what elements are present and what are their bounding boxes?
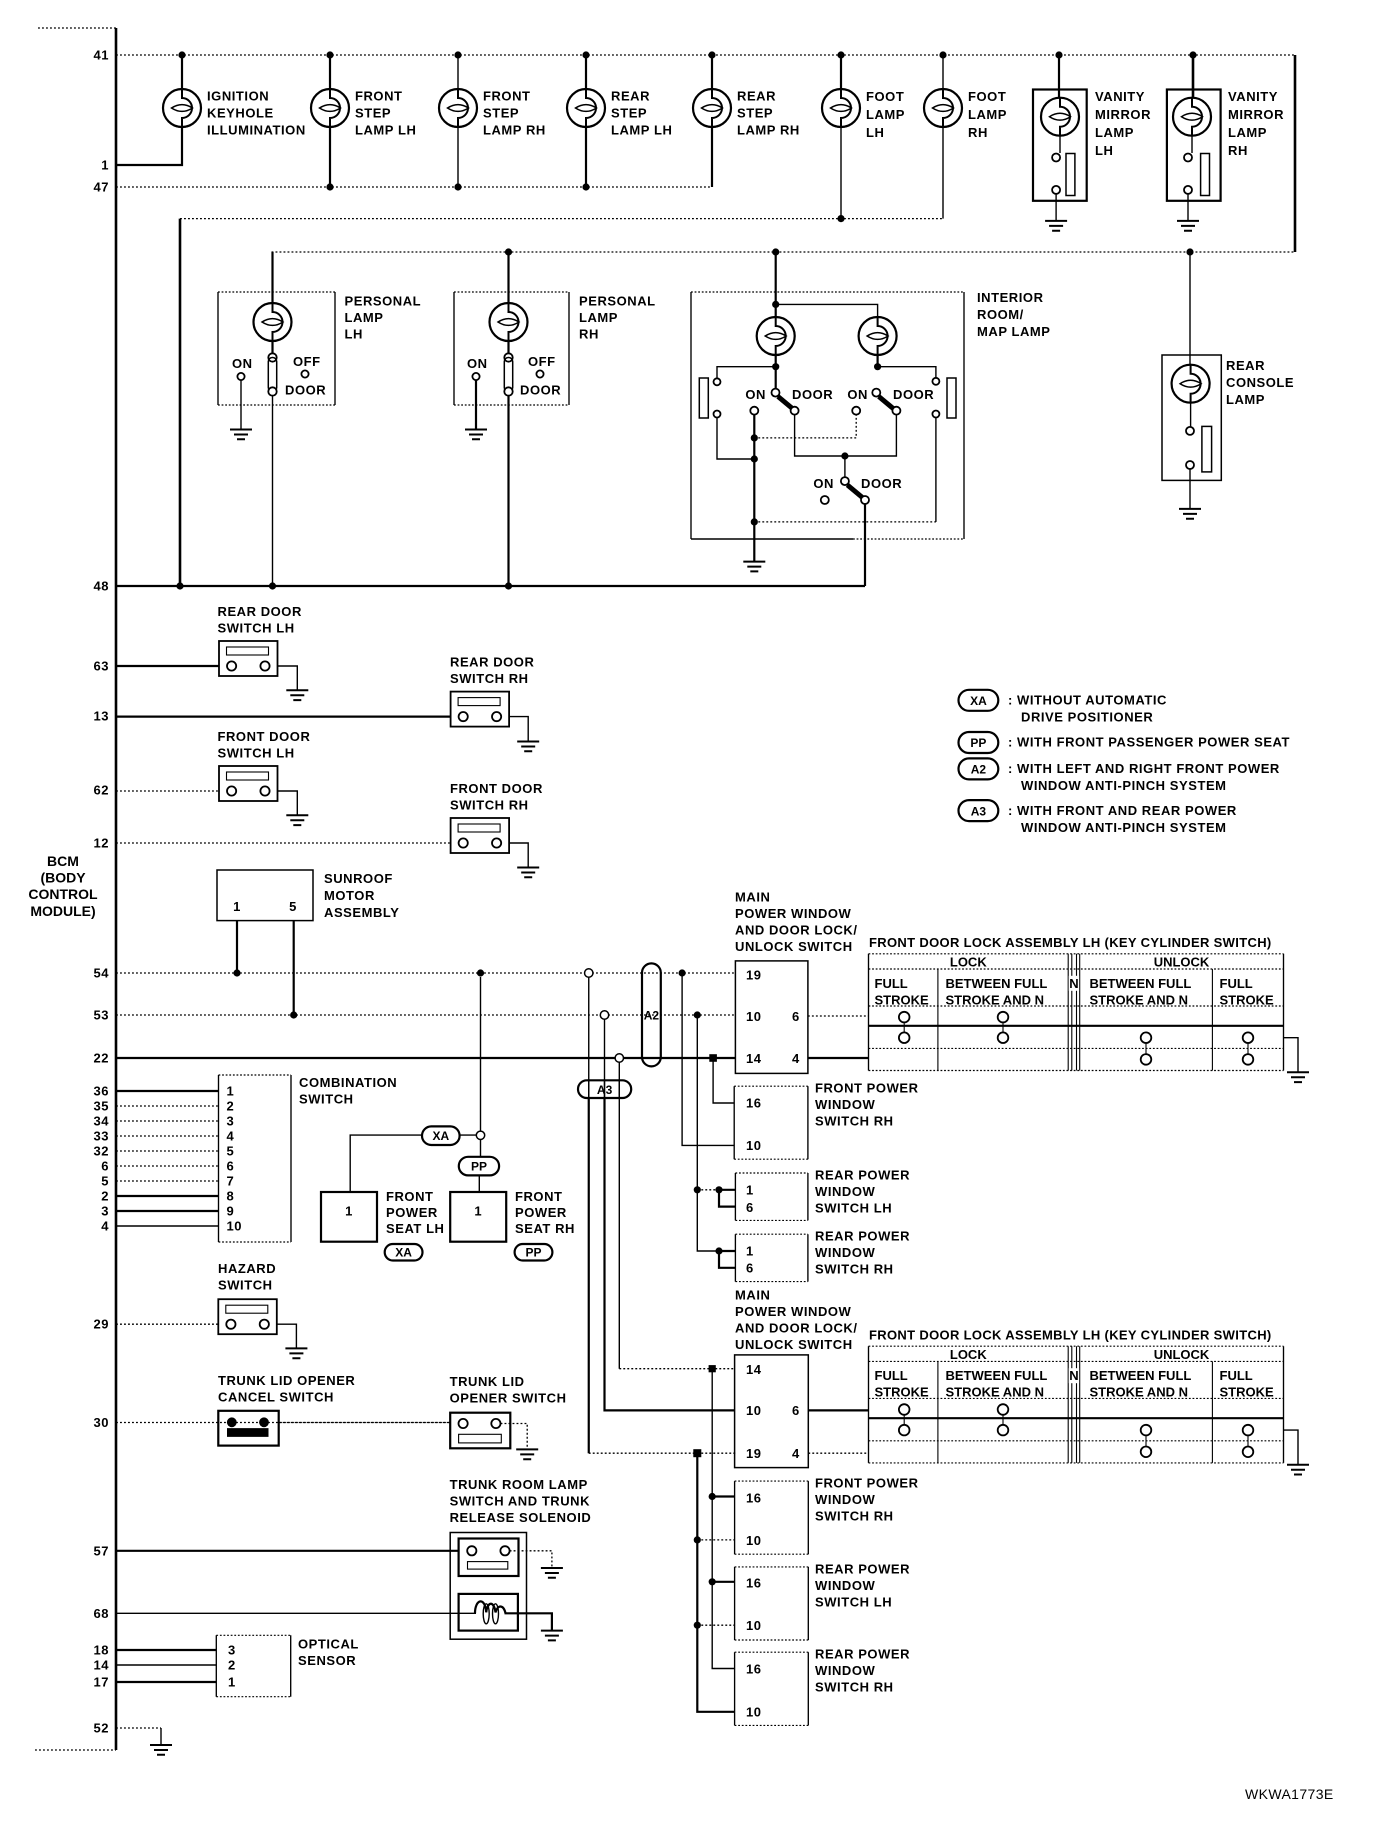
svg-text:MOTOR: MOTOR bbox=[324, 888, 375, 903]
svg-text:10: 10 bbox=[746, 1533, 762, 1548]
svg-text:LAMP: LAMP bbox=[1228, 125, 1267, 140]
svg-text:SWITCH LH: SWITCH LH bbox=[218, 746, 295, 761]
svg-text:A2: A2 bbox=[971, 763, 987, 777]
svg-text:SWITCH RH: SWITCH RH bbox=[815, 1114, 894, 1129]
trunk room lamp switch and trunk release solenoid bbox=[450, 1477, 592, 1639]
svg-text:XA: XA bbox=[970, 694, 987, 708]
svg-text:29: 29 bbox=[93, 1317, 109, 1332]
svg-text:LH: LH bbox=[345, 327, 363, 342]
svg-text:52: 52 bbox=[93, 1721, 109, 1736]
svg-text:1: 1 bbox=[228, 1675, 236, 1690]
svg-text:ASSEMBLY: ASSEMBLY bbox=[324, 905, 399, 920]
svg-text:10: 10 bbox=[227, 1219, 243, 1234]
svg-text:STEP: STEP bbox=[737, 106, 773, 121]
switch: front door switch RH bbox=[116, 781, 543, 877]
svg-text:68: 68 bbox=[93, 1606, 109, 1621]
svg-text:LAMP RH: LAMP RH bbox=[483, 123, 546, 138]
svg-text:7: 7 bbox=[227, 1174, 235, 1189]
svg-text:10: 10 bbox=[746, 1138, 762, 1153]
svg-text:ON: ON bbox=[847, 387, 868, 402]
wire: pin 47 bus bbox=[116, 186, 712, 188]
svg-text:6: 6 bbox=[792, 1403, 800, 1418]
wire: junction on pin 19 feed for lower group bbox=[693, 1449, 701, 1457]
svg-text:RH: RH bbox=[968, 125, 988, 140]
svg-text:IGNITION: IGNITION bbox=[207, 89, 269, 104]
svg-text:4: 4 bbox=[227, 1129, 235, 1144]
svg-text:REAR POWER: REAR POWER bbox=[815, 1229, 910, 1244]
svg-text:CANCEL SWITCH: CANCEL SWITCH bbox=[218, 1390, 334, 1405]
wire: line 54 branch to front power window switch RH pin 10 bbox=[682, 973, 734, 1145]
svg-text:SWITCH RH: SWITCH RH bbox=[450, 798, 529, 813]
svg-text:5: 5 bbox=[289, 899, 297, 914]
svg-text:PERSONAL: PERSONAL bbox=[579, 294, 656, 309]
svg-text:8: 8 bbox=[227, 1189, 235, 1204]
svg-text:WINDOW: WINDOW bbox=[815, 1578, 876, 1593]
svg-text:UNLOCK SWITCH: UNLOCK SWITCH bbox=[735, 1337, 853, 1352]
personal lamp RH bbox=[454, 248, 656, 586]
svg-text:4: 4 bbox=[792, 1446, 800, 1461]
wire: A3 drop from pin 22 bbox=[618, 1062, 620, 1369]
connector option XA capsule (wire) bbox=[422, 1126, 485, 1145]
svg-text:16: 16 bbox=[746, 1491, 762, 1506]
svg-text:SUNROOF: SUNROOF bbox=[324, 871, 393, 886]
svg-text:ON: ON bbox=[745, 387, 766, 402]
legend: A2 option bbox=[959, 758, 1280, 793]
svg-text:35: 35 bbox=[93, 1099, 109, 1114]
svg-text:5: 5 bbox=[101, 1174, 109, 1189]
wire: line 54 drop to front power seat RH bbox=[480, 977, 482, 1131]
svg-text:DOOR: DOOR bbox=[520, 383, 561, 398]
main power window and door lock/unlock switch (lower) bbox=[735, 1288, 858, 1468]
svg-text:10: 10 bbox=[746, 1009, 762, 1024]
svg-text:FRONT: FRONT bbox=[386, 1189, 434, 1204]
svg-text:OPENER SWITCH: OPENER SWITCH bbox=[450, 1391, 567, 1406]
svg-text:9: 9 bbox=[227, 1204, 235, 1219]
svg-text:13: 13 bbox=[93, 709, 109, 724]
svg-text:2: 2 bbox=[227, 1099, 235, 1114]
svg-text:4: 4 bbox=[101, 1219, 109, 1234]
wire: pin 48 bus bbox=[116, 582, 865, 589]
svg-text:MIRROR: MIRROR bbox=[1095, 107, 1151, 122]
svg-text:3: 3 bbox=[228, 1643, 236, 1658]
svg-text:XA: XA bbox=[432, 1129, 449, 1143]
switch: trunk room lamp switch bbox=[116, 1539, 563, 1578]
svg-text:RH: RH bbox=[579, 327, 599, 342]
front power window switch RH (upper) bbox=[734, 1081, 918, 1160]
connector option A3 capsule bbox=[578, 1080, 631, 1098]
wire: pin 52 to ground bbox=[116, 1728, 172, 1755]
svg-text:1: 1 bbox=[233, 899, 241, 914]
svg-text:19: 19 bbox=[746, 968, 762, 983]
svg-text:OFF: OFF bbox=[528, 354, 556, 369]
wire: A3 drop from pin 54 bbox=[588, 977, 590, 1098]
svg-text:1: 1 bbox=[746, 1183, 754, 1198]
svg-text:32: 32 bbox=[93, 1144, 109, 1159]
lamp: front step lamp LH bbox=[311, 55, 416, 191]
svg-text:SWITCH: SWITCH bbox=[299, 1092, 354, 1107]
wire: vertical feed to pin 48 bus bbox=[179, 219, 182, 586]
wire: pin 53 bus bbox=[116, 1011, 735, 1019]
rear power window switch LH (upper) bbox=[735, 1168, 910, 1221]
lamp: rear step lamp RH bbox=[693, 55, 800, 187]
svg-text:1: 1 bbox=[474, 1204, 482, 1219]
svg-text:RELEASE SOLENOID: RELEASE SOLENOID bbox=[450, 1510, 592, 1525]
interior lamp inner contacts right bbox=[878, 367, 956, 522]
svg-text:36: 36 bbox=[93, 1084, 109, 1099]
rear power window switch RH (upper) bbox=[735, 1229, 910, 1282]
svg-text:: WITHOUT AUTOMATIC: : WITHOUT AUTOMATIC bbox=[1008, 693, 1167, 708]
svg-text:ROOM/: ROOM/ bbox=[977, 307, 1024, 322]
svg-text:FRONT DOOR: FRONT DOOR bbox=[218, 729, 311, 744]
lamp: front step lamp RH bbox=[439, 55, 546, 191]
wire: line 53 branch to rear power window switches bbox=[694, 1015, 736, 1268]
svg-text:WKWA1773E: WKWA1773E bbox=[1245, 1786, 1334, 1802]
svg-text:14: 14 bbox=[746, 1362, 762, 1377]
svg-text:1: 1 bbox=[101, 158, 109, 173]
legend: XA option bbox=[959, 690, 1168, 725]
interior switch tie wiring bbox=[751, 415, 936, 526]
svg-text:VANITY: VANITY bbox=[1228, 89, 1278, 104]
svg-text:FOOT: FOOT bbox=[866, 89, 904, 104]
svg-text:57: 57 bbox=[93, 1544, 109, 1559]
svg-text:PP: PP bbox=[471, 1159, 487, 1173]
connector option PP capsule (wire) bbox=[459, 1140, 499, 1193]
svg-text:LH: LH bbox=[866, 125, 884, 140]
wire: foot lamp feed line bbox=[180, 218, 943, 220]
svg-text:CONTROL: CONTROL bbox=[28, 886, 98, 902]
BCM (Body Control Module) left bus line bbox=[35, 28, 116, 1750]
svg-text:OFF: OFF bbox=[293, 354, 321, 369]
interior room / map lamp assembly bbox=[691, 248, 964, 539]
svg-text:MAIN: MAIN bbox=[735, 1288, 770, 1303]
svg-text:FRONT POWER: FRONT POWER bbox=[815, 1081, 919, 1096]
svg-text:REAR: REAR bbox=[737, 89, 776, 104]
svg-text:SWITCH LH: SWITCH LH bbox=[218, 621, 295, 636]
svg-text:LAMP LH: LAMP LH bbox=[611, 123, 672, 138]
svg-text:LAMP: LAMP bbox=[1095, 125, 1134, 140]
svg-text:WINDOW: WINDOW bbox=[815, 1184, 876, 1199]
svg-text:POWER WINDOW: POWER WINDOW bbox=[735, 1304, 852, 1319]
lamp: vanity mirror lamp LH bbox=[1033, 55, 1151, 231]
main power window and door lock/unlock switch (upper) bbox=[735, 890, 858, 1074]
svg-text:SWITCH RH: SWITCH RH bbox=[815, 1262, 894, 1277]
svg-text:DOOR: DOOR bbox=[861, 476, 902, 491]
svg-text:WINDOW: WINDOW bbox=[815, 1492, 876, 1507]
wire: lower group feed to pin-16 rows bbox=[709, 1369, 735, 1669]
svg-text:STEP: STEP bbox=[355, 106, 391, 121]
svg-text:10: 10 bbox=[746, 1618, 762, 1633]
svg-text:: WITH FRONT PASSENGER POWER S: : WITH FRONT PASSENGER POWER SEAT bbox=[1008, 735, 1290, 750]
svg-text:REAR DOOR: REAR DOOR bbox=[218, 604, 302, 619]
interior lamp inner contacts left bbox=[699, 367, 775, 459]
svg-text:4: 4 bbox=[792, 1051, 800, 1066]
svg-text:A2: A2 bbox=[644, 1009, 660, 1023]
svg-text:SWITCH RH: SWITCH RH bbox=[815, 1509, 894, 1524]
switch: rear door switch RH bbox=[116, 655, 539, 752]
wire: A3 drop from pin 53 bbox=[604, 1019, 606, 1098]
svg-text:33: 33 bbox=[93, 1129, 109, 1144]
BCM label bbox=[28, 853, 98, 919]
svg-text:1: 1 bbox=[746, 1244, 754, 1259]
svg-text:INTERIOR: INTERIOR bbox=[977, 290, 1044, 305]
svg-text:POWER: POWER bbox=[515, 1205, 567, 1220]
switch: hazard switch bbox=[116, 1261, 307, 1358]
svg-text:AND DOOR LOCK/: AND DOOR LOCK/ bbox=[735, 1321, 858, 1336]
switch: interior room lamp switch 1 ON/DOOR bbox=[745, 387, 833, 415]
svg-text:LAMP: LAMP bbox=[866, 107, 905, 122]
svg-text:LAMP: LAMP bbox=[968, 107, 1007, 122]
lamp: rear step lamp LH bbox=[567, 55, 672, 191]
svg-text:47: 47 bbox=[93, 180, 109, 195]
wire: pin 30 bus bbox=[116, 1422, 450, 1424]
svg-text:16: 16 bbox=[746, 1096, 762, 1111]
svg-text:PP: PP bbox=[525, 1246, 541, 1260]
svg-text:16: 16 bbox=[746, 1662, 762, 1677]
svg-text:(BODY: (BODY bbox=[40, 870, 86, 886]
BCM pin labels bbox=[93, 48, 109, 1736]
svg-text:SENSOR: SENSOR bbox=[298, 1653, 356, 1668]
svg-text:19: 19 bbox=[746, 1446, 762, 1461]
wire: pin 54 bus bbox=[116, 969, 735, 977]
legend: A3 option bbox=[959, 800, 1237, 835]
sunroof motor assembly bbox=[217, 870, 399, 1015]
wire: upper switch pin 6 to key cylinder table bbox=[808, 1015, 869, 1017]
svg-text:MAP LAMP: MAP LAMP bbox=[977, 324, 1051, 339]
svg-text:LAMP RH: LAMP RH bbox=[737, 123, 800, 138]
lamp: interior room lamp 2 bbox=[859, 317, 897, 370]
svg-text:MAIN: MAIN bbox=[735, 890, 770, 905]
svg-text:ON: ON bbox=[232, 356, 253, 371]
svg-text:SWITCH RH: SWITCH RH bbox=[450, 671, 529, 686]
svg-text:18: 18 bbox=[93, 1643, 109, 1658]
svg-text:PP: PP bbox=[970, 736, 986, 750]
svg-text:WINDOW: WINDOW bbox=[815, 1663, 876, 1678]
svg-text:FRONT: FRONT bbox=[515, 1189, 563, 1204]
svg-text:48: 48 bbox=[93, 579, 109, 594]
lamp: rear console lamp bbox=[1162, 248, 1294, 518]
svg-text:DOOR: DOOR bbox=[285, 383, 326, 398]
svg-text:ON: ON bbox=[467, 356, 488, 371]
svg-text:LAMP: LAMP bbox=[1226, 392, 1265, 407]
wire: lower group feed to pin-10 rows bbox=[694, 1453, 735, 1712]
svg-text:WINDOW: WINDOW bbox=[815, 1097, 876, 1112]
svg-text:REAR DOOR: REAR DOOR bbox=[450, 655, 534, 670]
svg-text:12: 12 bbox=[93, 836, 109, 851]
interior room / map lamp label bbox=[977, 290, 1051, 339]
combination switch bbox=[219, 1075, 398, 1242]
svg-text:53: 53 bbox=[93, 1008, 109, 1023]
svg-text:LAMP LH: LAMP LH bbox=[355, 123, 416, 138]
svg-text:: WITH LEFT AND RIGHT FRONT PO: : WITH LEFT AND RIGHT FRONT POWER bbox=[1008, 761, 1280, 776]
svg-text:3: 3 bbox=[227, 1114, 235, 1129]
svg-text:SWITCH RH: SWITCH RH bbox=[815, 1680, 894, 1695]
svg-text:MODULE): MODULE) bbox=[30, 903, 95, 919]
optical sensor bbox=[116, 1635, 359, 1696]
svg-text:: WITH FRONT AND REAR POWER: : WITH FRONT AND REAR POWER bbox=[1008, 803, 1237, 818]
wire: interior switch 3 DOOR output to pin 48 bus bbox=[864, 504, 866, 586]
lamp: foot lamp LH bbox=[822, 55, 905, 222]
wire: bus line pin 41 bbox=[116, 51, 1295, 58]
svg-text:SWITCH LH: SWITCH LH bbox=[815, 1201, 892, 1216]
connector option A2 capsule bbox=[642, 963, 661, 1066]
front power seat RH bbox=[450, 1189, 575, 1242]
svg-text:KEYHOLE: KEYHOLE bbox=[207, 106, 274, 121]
svg-text:6: 6 bbox=[746, 1200, 754, 1215]
svg-text:HAZARD: HAZARD bbox=[218, 1261, 276, 1276]
svg-text:REAR: REAR bbox=[611, 89, 650, 104]
lamp: interior room lamp 1 bbox=[757, 317, 795, 392]
svg-text:STEP: STEP bbox=[611, 106, 647, 121]
svg-text:FRONT DOOR LOCK ASSEMBLY LH (K: FRONT DOOR LOCK ASSEMBLY LH (KEY CYLINDE… bbox=[869, 1327, 1272, 1342]
svg-text:14: 14 bbox=[746, 1051, 762, 1066]
switch: front door switch LH bbox=[116, 729, 310, 825]
svg-text:16: 16 bbox=[746, 1576, 762, 1591]
svg-text:DOOR: DOOR bbox=[893, 387, 934, 402]
svg-text:STEP: STEP bbox=[483, 106, 519, 121]
svg-text:2: 2 bbox=[228, 1658, 236, 1673]
wire: personal/interior/console lamp feed line bbox=[272, 251, 1296, 253]
svg-text:AND DOOR LOCK/: AND DOOR LOCK/ bbox=[735, 923, 858, 938]
svg-text:6: 6 bbox=[792, 1009, 800, 1024]
svg-text:PERSONAL: PERSONAL bbox=[345, 294, 422, 309]
svg-text:DOOR: DOOR bbox=[792, 387, 833, 402]
lamp: vanity mirror lamp RH bbox=[1167, 55, 1284, 231]
front power window switch RH (lower) bbox=[735, 1476, 919, 1555]
wire: line 22 branch to front power window switch RH pin 16 bbox=[713, 1058, 734, 1103]
svg-text:2: 2 bbox=[101, 1189, 109, 1204]
svg-text:SWITCH LH: SWITCH LH bbox=[815, 1595, 892, 1610]
wires: BCM to combination switch pins bbox=[116, 1091, 219, 1226]
svg-text:3: 3 bbox=[101, 1204, 109, 1219]
wire: pin 22 bus bbox=[116, 1054, 735, 1062]
svg-text:REAR POWER: REAR POWER bbox=[815, 1562, 910, 1577]
svg-text:SEAT RH: SEAT RH bbox=[515, 1221, 575, 1236]
svg-text:OPTICAL: OPTICAL bbox=[298, 1637, 359, 1652]
svg-text:UNLOCK SWITCH: UNLOCK SWITCH bbox=[735, 939, 853, 954]
svg-text:WINDOW: WINDOW bbox=[815, 1245, 876, 1260]
front power seat LH bbox=[321, 1135, 445, 1242]
option tag XA under seat LH bbox=[385, 1244, 423, 1261]
personal lamp LH bbox=[218, 252, 421, 586]
svg-text:LAMP: LAMP bbox=[579, 310, 618, 325]
switch: interior room lamp switch 2 ON/DOOR bbox=[847, 387, 934, 415]
svg-text:REAR POWER: REAR POWER bbox=[815, 1647, 910, 1662]
wire: upper switch pin 4 to key cylinder table bbox=[808, 1057, 869, 1059]
front door lock assembly LH key cylinder switch table (upper) bbox=[869, 935, 1310, 1082]
svg-text:62: 62 bbox=[93, 783, 109, 798]
svg-text:5: 5 bbox=[227, 1144, 235, 1159]
svg-text:22: 22 bbox=[93, 1051, 109, 1066]
ground: interior room lamp bbox=[743, 522, 765, 571]
svg-text:LH: LH bbox=[1095, 143, 1113, 158]
svg-text:54: 54 bbox=[93, 966, 109, 981]
rear power window switch RH (lower) bbox=[735, 1647, 911, 1726]
svg-text:FRONT POWER: FRONT POWER bbox=[815, 1476, 919, 1491]
wire: right feed drop from pin 41 bus bbox=[1294, 55, 1297, 252]
svg-text:REAR POWER: REAR POWER bbox=[815, 1168, 910, 1183]
switch: rear door switch LH bbox=[116, 604, 308, 700]
svg-text:ILLUMINATION: ILLUMINATION bbox=[207, 123, 306, 138]
wire: junction on pin 14 feed for lower group bbox=[709, 1365, 716, 1372]
legend: PP option bbox=[959, 732, 1291, 753]
svg-text:TRUNK LID: TRUNK LID bbox=[450, 1374, 525, 1389]
svg-text:34: 34 bbox=[93, 1114, 109, 1129]
svg-text:REAR: REAR bbox=[1226, 358, 1265, 373]
switch: trunk lid opener cancel switch bbox=[218, 1373, 355, 1446]
svg-text:FRONT DOOR LOCK ASSEMBLY LH (K: FRONT DOOR LOCK ASSEMBLY LH (KEY CYLINDE… bbox=[869, 935, 1272, 950]
svg-text:CONSOLE: CONSOLE bbox=[1226, 375, 1294, 390]
svg-text:FOOT: FOOT bbox=[968, 89, 1006, 104]
svg-text:TRUNK LID OPENER: TRUNK LID OPENER bbox=[218, 1373, 355, 1388]
svg-text:6: 6 bbox=[227, 1159, 235, 1174]
svg-text:1: 1 bbox=[227, 1084, 235, 1099]
svg-text:10: 10 bbox=[746, 1705, 762, 1720]
svg-text:TRUNK ROOM LAMP: TRUNK ROOM LAMP bbox=[450, 1477, 588, 1492]
svg-text:MIRROR: MIRROR bbox=[1228, 107, 1284, 122]
svg-text:SEAT LH: SEAT LH bbox=[386, 1221, 445, 1236]
svg-text:POWER WINDOW: POWER WINDOW bbox=[735, 906, 852, 921]
svg-text:17: 17 bbox=[93, 1675, 109, 1690]
svg-text:1: 1 bbox=[345, 1204, 353, 1219]
svg-text:SWITCH AND TRUNK: SWITCH AND TRUNK bbox=[450, 1494, 591, 1509]
svg-text:FRONT DOOR: FRONT DOOR bbox=[450, 781, 543, 796]
lamp: ignition keyhole illumination bbox=[116, 55, 306, 165]
svg-text:COMBINATION: COMBINATION bbox=[299, 1075, 397, 1090]
svg-text:LAMP: LAMP bbox=[345, 310, 384, 325]
svg-text:6: 6 bbox=[746, 1261, 754, 1276]
svg-text:RH: RH bbox=[1228, 143, 1248, 158]
svg-text:10: 10 bbox=[746, 1403, 762, 1418]
option tag PP under seat RH bbox=[515, 1244, 553, 1261]
switch: trunk lid opener switch bbox=[279, 1374, 567, 1459]
svg-text:XA: XA bbox=[395, 1246, 412, 1260]
svg-text:14: 14 bbox=[93, 1658, 109, 1673]
svg-text:41: 41 bbox=[93, 48, 109, 63]
svg-text:BCM: BCM bbox=[47, 853, 79, 869]
svg-text:WINDOW ANTI-PINCH SYSTEM: WINDOW ANTI-PINCH SYSTEM bbox=[1021, 778, 1227, 793]
svg-text:63: 63 bbox=[93, 659, 109, 674]
front door lock assembly LH key cylinder switch table (lower) bbox=[869, 1327, 1310, 1474]
svg-text:FRONT: FRONT bbox=[355, 89, 403, 104]
wire: lower switch pin 4 to key cylinder table bbox=[808, 1452, 868, 1454]
switch: interior room lamp switch 3 ON/DOOR bbox=[813, 456, 902, 504]
svg-text:ON: ON bbox=[813, 476, 834, 491]
svg-text:POWER: POWER bbox=[386, 1205, 438, 1220]
svg-text:30: 30 bbox=[93, 1415, 109, 1430]
solenoid: trunk release solenoid bbox=[116, 1594, 563, 1641]
svg-text:VANITY: VANITY bbox=[1095, 89, 1145, 104]
wire: lower switch pin 6 to key cylinder table bbox=[808, 1409, 868, 1411]
svg-text:DRIVE POSITIONER: DRIVE POSITIONER bbox=[1021, 710, 1153, 725]
svg-text:WINDOW ANTI-PINCH SYSTEM: WINDOW ANTI-PINCH SYSTEM bbox=[1021, 820, 1227, 835]
svg-text:SWITCH: SWITCH bbox=[218, 1278, 273, 1293]
lamp: foot lamp RH bbox=[924, 55, 1007, 219]
svg-text:FRONT: FRONT bbox=[483, 89, 531, 104]
svg-text:6: 6 bbox=[101, 1159, 109, 1174]
svg-text:A3: A3 bbox=[971, 804, 987, 818]
rear power window switch LH (lower) bbox=[735, 1562, 911, 1641]
